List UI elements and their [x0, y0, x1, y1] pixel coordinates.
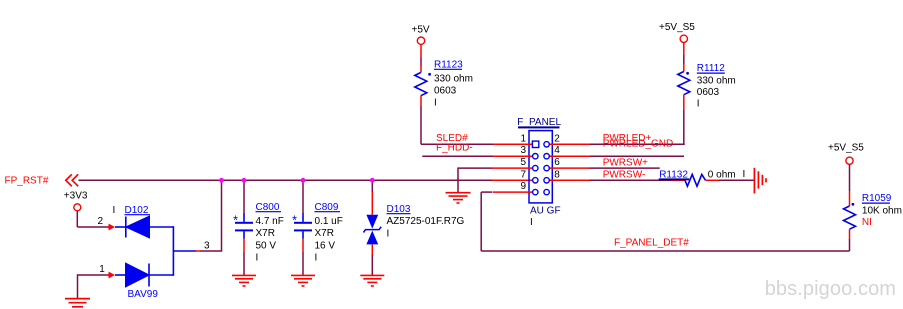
connector pin circles left — [533, 154, 538, 195]
wire D102 pin 3 stub — [173, 250, 196, 252]
svg-text:0.1 uF: 0.1 uF — [315, 216, 343, 227]
connector pin circles right — [544, 142, 549, 195]
off-page input chevron FP_RST# — [66, 174, 78, 186]
wire +3V3 to D102 pin 2 — [77, 226, 108, 228]
svg-text:F_HDD-: F_HDD- — [436, 143, 473, 154]
wire D102 pin 3 to bus — [200, 180, 222, 251]
resistor R1123 — [415, 73, 431, 145]
connector pin numbers left — [520, 133, 526, 192]
svg-text:330 ohm: 330 ohm — [697, 75, 736, 86]
wire ground to D102 pin 1 — [78, 275, 109, 298]
pin arrow D102 pin 2 — [109, 224, 116, 231]
svg-text:bbs.pigoo.com: bbs.pigoo.com — [765, 278, 896, 300]
svg-text:*: * — [292, 213, 297, 228]
labels R1112 — [697, 63, 736, 109]
wire connector pin 5 to ground — [458, 168, 492, 192]
pin arrow D102 pin 1 — [109, 272, 116, 279]
resistor R1059 — [844, 203, 856, 251]
svg-text:PWRLED_GND: PWRLED_GND — [603, 139, 674, 150]
wire FP_RST# red stub to connector pin 7 — [492, 179, 533, 181]
ground (C800) — [232, 275, 256, 286]
svg-text:BAV99: BAV99 — [128, 289, 159, 300]
labels R1123 — [434, 59, 473, 108]
svg-text:3: 3 — [204, 241, 210, 252]
svg-text:4.7 nF: 4.7 nF — [256, 216, 284, 227]
wire PWRLED_GND (row 4) — [589, 155, 684, 157]
wire F_PANEL_DET# — [481, 250, 849, 252]
svg-text:I: I — [387, 228, 390, 239]
power symbol +5V — [412, 24, 430, 72]
svg-text:*: * — [233, 213, 238, 228]
ground (rotated, after R1132) — [754, 168, 766, 194]
wire PWRLED+ (row 2) to R1112 — [589, 143, 684, 146]
svg-text:9: 9 — [520, 181, 526, 192]
svg-text:6: 6 — [554, 157, 560, 168]
svg-text:16 V: 16 V — [315, 240, 336, 251]
svg-text:PWRSW-: PWRSW- — [603, 169, 646, 180]
wire F_HDD- (row 3) — [422, 155, 493, 157]
diode D102 bottom half (triangle pointing right, cathode bar right) — [115, 264, 173, 287]
svg-text:NI: NI — [862, 217, 872, 228]
svg-text:8: 8 — [554, 169, 560, 180]
ground (C809) — [291, 275, 315, 286]
svg-text:1: 1 — [99, 264, 105, 275]
svg-text:I: I — [256, 253, 259, 264]
svg-text:4: 4 — [554, 145, 560, 156]
junction node dots on FP_RST# bus — [219, 178, 375, 183]
svg-text:2: 2 — [554, 133, 560, 144]
connector pin numbers right — [554, 133, 560, 180]
svg-text:330 ohm: 330 ohm — [434, 73, 473, 84]
capacitor C800 — [233, 180, 253, 275]
svg-text:X7R: X7R — [315, 228, 334, 239]
connector F_PANEL — [517, 117, 561, 203]
svg-text:AU GF: AU GF — [530, 206, 561, 217]
ground (pin 5) — [446, 193, 471, 203]
diode D102 top half (cathode bar left, triangle pointing left) — [115, 217, 173, 238]
svg-text:FP_RST#: FP_RST# — [5, 176, 49, 187]
capacitor C809 — [292, 180, 312, 275]
wire PWRSW+ (row 6) — [589, 167, 660, 169]
svg-text:0603: 0603 — [434, 86, 457, 97]
svg-text:0603: 0603 — [697, 87, 720, 98]
connector pin stubs right (red) — [549, 144, 589, 180]
svg-text:10K ohm: 10K ohm — [862, 205, 902, 216]
ground (bottom left) — [65, 299, 90, 307]
connector pin 1 square — [532, 141, 538, 147]
wire PWRSW- (row 8) — [589, 179, 671, 181]
labels R1059 — [862, 193, 902, 228]
svg-text:2: 2 — [98, 216, 104, 227]
svg-text:I: I — [697, 99, 700, 110]
svg-text:+5V_S5: +5V_S5 — [659, 22, 695, 33]
svg-text:X7R: X7R — [256, 228, 275, 239]
ground (D103) — [360, 275, 384, 286]
svg-text:AZ5725-01F.R7G: AZ5725-01F.R7G — [387, 216, 465, 227]
wire connector pin 9 down to F_PANEL_DET# — [481, 191, 492, 193]
svg-text:3: 3 — [520, 145, 526, 156]
resistor R1132 — [659, 169, 754, 186]
svg-text:0 ohm: 0 ohm — [708, 169, 736, 180]
svg-text:F_PANEL_DET#: F_PANEL_DET# — [614, 237, 689, 248]
power symbol +5V_S5 (top) — [659, 22, 695, 72]
resistor R1112 — [678, 72, 690, 145]
svg-text:50 V: 50 V — [256, 240, 277, 251]
TVS diode D103 — [363, 180, 381, 275]
svg-text:I: I — [743, 169, 746, 180]
labels C809 — [315, 202, 343, 264]
svg-text:I: I — [315, 253, 318, 264]
svg-text:1: 1 — [520, 133, 526, 144]
labels D103 — [387, 204, 465, 240]
svg-text:7: 7 — [520, 169, 526, 180]
svg-text:+5V_S5: +5V_S5 — [828, 142, 864, 153]
power symbol +3V3 — [64, 191, 88, 228]
power symbol +5V_S5 (right) — [828, 142, 864, 206]
svg-text:5: 5 — [520, 157, 526, 168]
svg-text:I: I — [530, 217, 533, 228]
svg-text:I: I — [113, 205, 116, 216]
wire SLED# (row 1) — [421, 143, 493, 145]
svg-text:+3V3: +3V3 — [64, 191, 88, 202]
wire FP_RST# bus (row 7) — [79, 179, 493, 181]
svg-text:PWRSW+: PWRSW+ — [603, 157, 648, 168]
connector pin stubs left (red) — [492, 144, 533, 192]
svg-text:I: I — [434, 97, 437, 108]
svg-text:+5V: +5V — [412, 24, 430, 35]
wire D102 common vertical (pin3 join) — [172, 226, 174, 276]
labels C800 — [256, 202, 284, 264]
